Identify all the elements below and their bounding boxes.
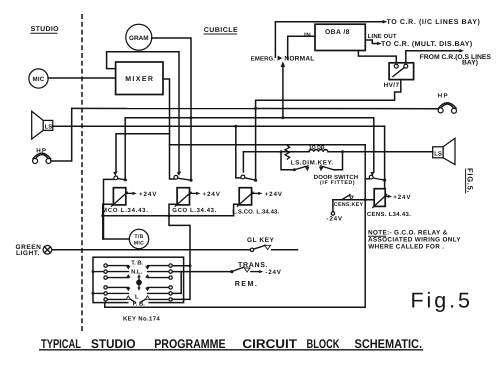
- key row 2: [92, 270, 173, 273]
- svg-text:N.L.: N.L.: [131, 270, 142, 276]
- wire from C.R. OS lines to HV/7: [406, 51, 461, 63]
- label CUBICLE: [204, 27, 239, 34]
- svg-text:HP: HP: [438, 93, 449, 100]
- svg-text:L: L: [135, 294, 139, 300]
- svg-text:HV/7: HV/7: [384, 82, 400, 89]
- wire OBA output to HV/7: [358, 51, 396, 63]
- svg-text:MIC: MIC: [134, 241, 144, 247]
- switch HV/7 headphone selector: [389, 63, 414, 80]
- wire HV/7 output to monitor bus: [256, 80, 401, 181]
- key GL KEY: [247, 237, 298, 251]
- contact LS.CO changeover: [241, 175, 258, 182]
- key LS.DIM blade right: [320, 166, 334, 170]
- svg-text:CIRCUIT: CIRCUIT: [242, 337, 297, 351]
- svg-text:T/B: T/B: [134, 234, 143, 240]
- svg-text:LS: LS: [434, 150, 442, 157]
- svg-text:-24V: -24V: [265, 269, 281, 276]
- wire line A monitor feed: [170, 144, 366, 146]
- svg-text:(IF FITTED): (IF FITTED): [320, 180, 355, 186]
- key row 1: [104, 264, 172, 270]
- svg-text:MIXER: MIXER: [125, 76, 154, 83]
- svg-text:TO C.R. (MULT. DIS.BAY): TO C.R. (MULT. DIS.BAY): [381, 40, 473, 48]
- studio/cubicle dashed partition: [81, 14, 83, 332]
- wire LS.DIM.KEY bypass right: [334, 152, 343, 170]
- svg-text:OBA /8: OBA /8: [325, 29, 350, 36]
- svg-text:MCO L.34.43.: MCO L.34.43.: [102, 207, 149, 214]
- svg-text:LS.DIM.KEY.: LS.DIM.KEY.: [291, 160, 334, 167]
- wire EMERG contact riser: [275, 22, 383, 58]
- svg-text:CENS. L34.43.: CENS. L34.43.: [367, 211, 411, 218]
- wire GCO coil bottom: [169, 204, 177, 216]
- svg-text:LIGHT.: LIGHT.: [16, 250, 40, 257]
- key centre plunger: [136, 274, 142, 291]
- node bypass left: [280, 150, 283, 153]
- wire monitor line A to door switch and censor chain: [364, 145, 366, 308]
- relay CENS coil: [373, 189, 412, 208]
- key row 4: [104, 286, 172, 292]
- svg-text:ASSOCIATED WIRING ONLY: ASSOCIATED WIRING ONLY: [368, 236, 461, 243]
- relay LS.CO coil: [237, 188, 283, 207]
- resistor LS dim: [285, 145, 290, 159]
- svg-text:GRAM: GRAM: [129, 35, 149, 42]
- lamp GREEN LIGHT: [16, 244, 52, 257]
- svg-text:REM.: REM.: [235, 279, 259, 288]
- relay GCO coil: [175, 188, 221, 207]
- wire bus2 programme: [125, 118, 374, 180]
- key row 5: [92, 292, 173, 295]
- relay MCO coil: [112, 188, 158, 207]
- svg-text:STUDIO: STUDIO: [31, 26, 59, 33]
- svg-text:CENS.KEY: CENS.KEY: [334, 202, 364, 208]
- node supply junctions: [101, 214, 104, 217]
- svg-text:L.S.CO. L.34.43.: L.S.CO. L.34.43.: [232, 209, 279, 216]
- wire key box bottom return: [105, 303, 365, 308]
- attenuator 10 DB pad: [309, 149, 328, 151]
- svg-text:TO C.R. (I/C LINES BAY): TO C.R. (I/C LINES BAY): [387, 18, 481, 26]
- node bus junctions: [254, 107, 257, 110]
- svg-text:+24V: +24V: [393, 194, 411, 201]
- svg-text:TYPICAL: TYPICAL: [41, 337, 81, 351]
- key row 6: [104, 296, 172, 302]
- wire bus3 drop to door switch: [384, 126, 386, 180]
- contact GCO changeover: [174, 171, 193, 182]
- mixer U1: [116, 62, 163, 95]
- wire MCO contact to T/B mic riser: [104, 179, 114, 239]
- wire LS.CO coil bottom: [234, 204, 240, 216]
- wire key row2 to TRANS key: [172, 271, 231, 273]
- svg-text:PROGRAMME: PROGRAMME: [154, 337, 225, 351]
- svg-text:LS: LS: [45, 123, 53, 130]
- wire bus4 mixer out to MCO contact: [116, 134, 170, 172]
- wire OBA line out: [365, 40, 378, 44]
- wire relay supply common: [103, 215, 234, 217]
- wire emergency changeover blade to bus2: [282, 65, 284, 118]
- microphone MIC: [29, 69, 48, 88]
- svg-text:KEY No.174: KEY No.174: [123, 315, 160, 322]
- title TYPICAL STUDIO PROGRAMME CIRCUIT BLOCK SCHEMATIC.: [39, 337, 423, 351]
- svg-text:WHERE CALLED FOR .: WHERE CALLED FOR .: [368, 243, 444, 250]
- headphones HP studio: [33, 147, 51, 163]
- wire NORMAL to OBA in: [288, 36, 315, 59]
- node bypass right: [341, 150, 344, 153]
- wire studio HP riser to bus1: [51, 108, 72, 161]
- wire key row6 to relay chain: [172, 266, 190, 300]
- svg-text:NORMAL: NORMAL: [284, 55, 314, 62]
- wire green light to GL key: [52, 249, 251, 251]
- headphones HP cubicle: [438, 93, 457, 114]
- label FIG.5. rotated at right margin: [466, 168, 475, 193]
- wire line B monitor LS feed: [243, 151, 309, 153]
- svg-text:T. B.: T. B.: [131, 261, 143, 267]
- loudspeaker LS cubicle: [433, 138, 455, 164]
- contact MCO changeover: [113, 171, 127, 181]
- svg-text:STUDIO: STUDIO: [91, 337, 136, 351]
- wire relay chain to key row 1: [169, 216, 190, 266]
- gramophone GRAM: [126, 24, 152, 50]
- svg-text:SCHEMATIC.: SCHEMATIC.: [355, 337, 423, 351]
- key CENS.KEY: [327, 195, 375, 223]
- key TRANS: [230, 262, 281, 276]
- svg-text:GCO L.34.43.: GCO L.34.43.: [172, 207, 217, 214]
- svg-text:BAY): BAY): [462, 60, 478, 67]
- svg-text:EMERG.: EMERG.: [251, 55, 276, 62]
- wire MCO coil bottom: [103, 204, 114, 216]
- label P.B.: [129, 300, 149, 307]
- microphone T/B MIC talkback: [103, 204, 149, 248]
- note G.C.O.: [368, 230, 461, 251]
- wire line B drop to LS.CO contact arrow: [242, 152, 244, 172]
- amplifier OBA/8: [315, 24, 365, 50]
- key LS.DIM blade left: [294, 166, 308, 170]
- wire key row5 to TRANS return: [172, 272, 181, 294]
- wire door switch blade to CENS relay: [384, 180, 386, 189]
- wire bus3 LS feed: [53, 125, 385, 127]
- wire bus3 drop to LS.CO contact: [236, 126, 241, 178]
- svg-text:MIC: MIC: [33, 76, 45, 83]
- wire MIC to mixer: [48, 77, 116, 79]
- svg-text:LINE OUT: LINE OUT: [368, 33, 397, 40]
- svg-text:BLOCK: BLOCK: [307, 337, 340, 351]
- svg-text:CUBICLE: CUBICLE: [204, 27, 238, 34]
- key row 3: [104, 274, 172, 279]
- svg-text:GL KEY: GL KEY: [247, 237, 275, 244]
- label STUDIO: [30, 26, 59, 33]
- svg-text:-24V: -24V: [327, 216, 343, 223]
- node censor chain junction: [364, 198, 367, 201]
- loudspeaker LS studio: [32, 111, 53, 139]
- key box No.174: [93, 257, 184, 302]
- contact door switch changeover: [365, 171, 386, 182]
- wire mixer output: [163, 79, 174, 179]
- svg-text:Fig.5: Fig.5: [411, 289, 473, 313]
- wire LS.DIM.KEY bypass left: [281, 152, 294, 170]
- svg-text:FIG.5.: FIG.5.: [466, 168, 475, 193]
- svg-text:FROM C.R.(O.S LINES: FROM C.R.(O.S LINES: [420, 54, 492, 61]
- wire GRAM to bus: [152, 38, 191, 180]
- wire mixer input loop from GCO contact: [107, 52, 179, 172]
- svg-text:+24V: +24V: [265, 191, 283, 198]
- wire bus1 HP feed: [72, 107, 439, 109]
- svg-text:+24V: +24V: [139, 191, 157, 198]
- svg-text:+24V: +24V: [203, 191, 221, 198]
